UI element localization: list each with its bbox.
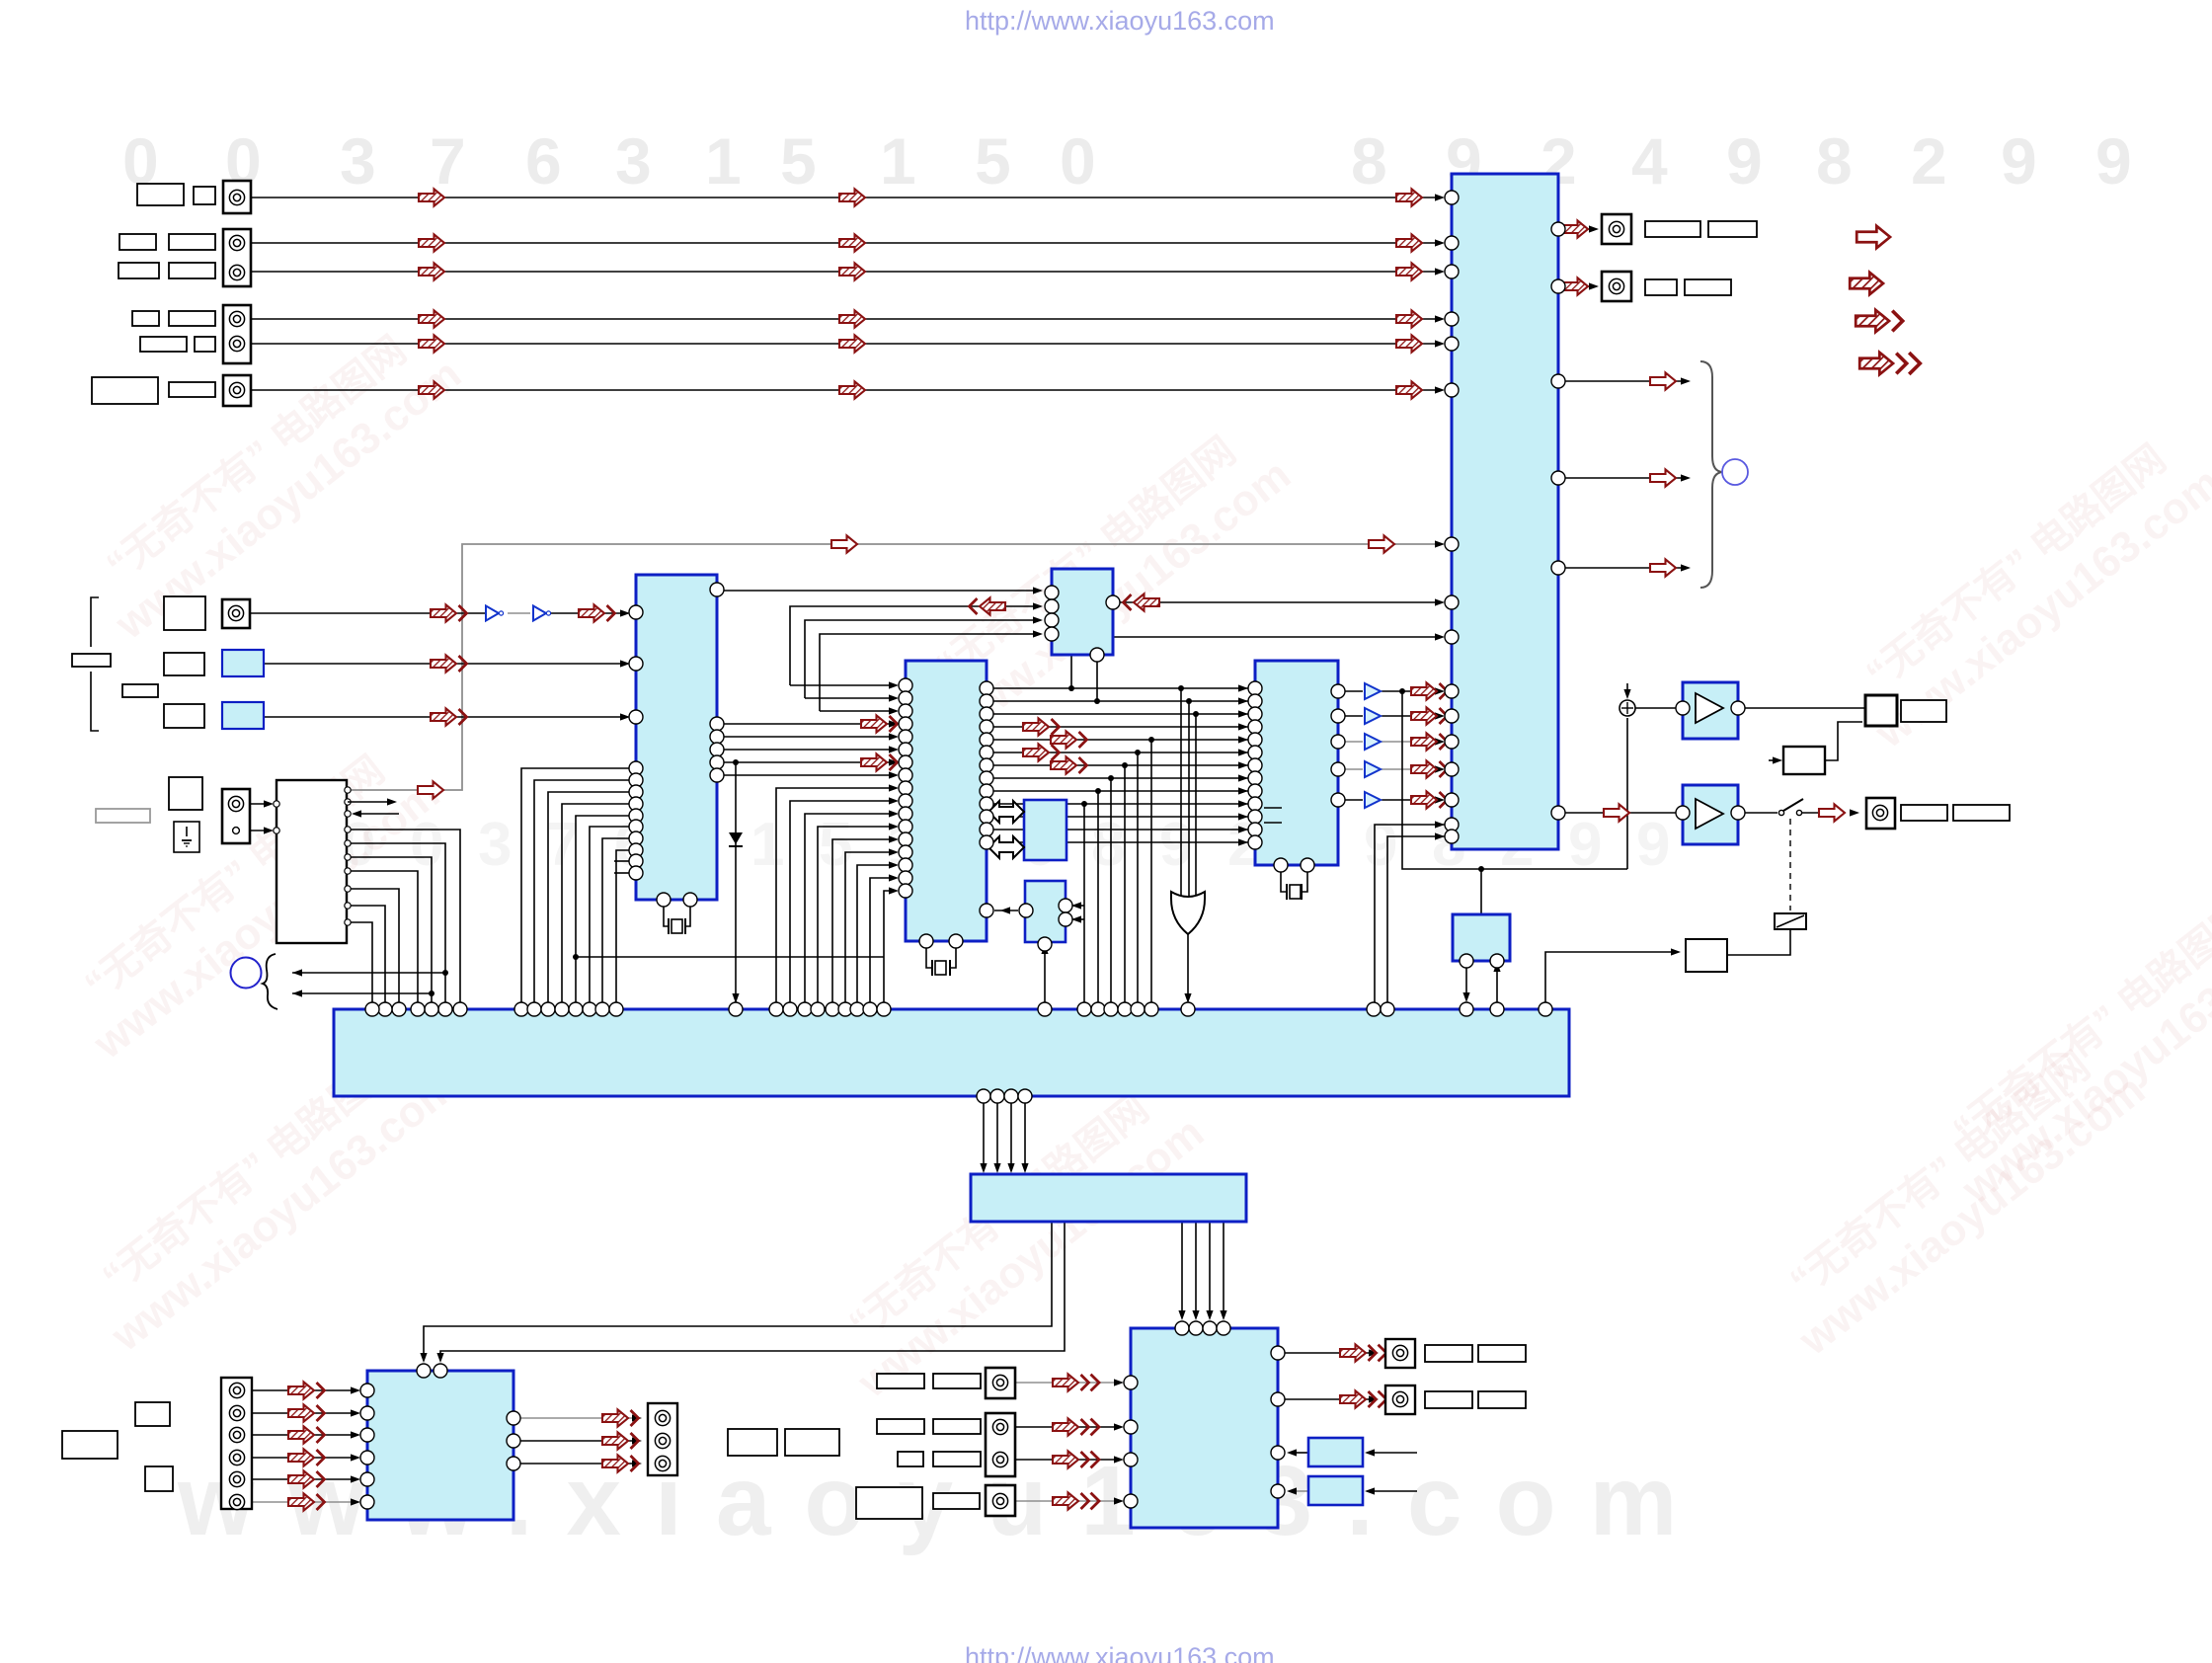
svg-text:0: 0	[1060, 124, 1096, 198]
wire IC5 to AMP2 headphone path	[1558, 812, 1676, 814]
jack out2 bottom	[1385, 1386, 1415, 1414]
wire control bus verticals group2 from IC1	[521, 768, 629, 1002]
pins IC1 bottom	[657, 893, 671, 907]
svg-text:8: 8	[1351, 124, 1387, 198]
svg-text:6: 6	[525, 124, 562, 198]
wire IC7 to K1	[1293, 1452, 1308, 1454]
speaker connector box	[1865, 695, 1897, 726]
wire verticals joining IC1-IC2 rows from IC3 bundle	[790, 684, 892, 686]
wire AMP1 to speaker box	[1745, 707, 1865, 709]
IC6 system control bus	[334, 1009, 1569, 1096]
jack JR2 out	[1602, 272, 1631, 301]
svg-text:9: 9	[1726, 124, 1763, 198]
arrows on IC2-IC4 bundle	[1023, 718, 1060, 735]
label boxes mid-left	[164, 596, 205, 630]
wire IC1 low stub pins	[614, 860, 629, 862]
pins IC3	[1045, 586, 1059, 599]
jack JBR-A	[986, 1368, 1015, 1398]
pins IC1 right and top	[710, 583, 724, 596]
relay RL1	[1775, 913, 1806, 929]
IC3 buffer IC	[1052, 569, 1113, 655]
wire power tap from control bundle	[576, 956, 884, 958]
pins IC2 right	[980, 681, 993, 695]
IC7 display driver block	[971, 1174, 1246, 1222]
wire IC5 outputs right side jacks	[1558, 228, 1592, 230]
jack J1 line in	[223, 181, 251, 213]
IC5 input selector	[1452, 174, 1558, 849]
IC11 bottom right controller	[1131, 1328, 1278, 1528]
wire box2 to speaker	[1825, 722, 1862, 760]
buffer B1	[486, 606, 504, 621]
block F eeprom	[1025, 881, 1066, 942]
svg-text:9: 9	[1364, 811, 1397, 879]
jack JBR-D	[986, 1485, 1015, 1516]
svg-text:3: 3	[478, 811, 512, 879]
wire sum junction feed	[1626, 683, 1628, 693]
diode D1	[729, 832, 743, 844]
wire dashed switch to relay	[1789, 819, 1791, 911]
pins IC10 bottom	[1460, 954, 1473, 968]
pins IC2 bottom	[919, 934, 933, 948]
wire J6 to IC8	[250, 803, 269, 805]
svg-text:7: 7	[430, 124, 466, 198]
crystal X1	[664, 900, 669, 926]
pins AMP2	[1676, 806, 1690, 820]
svg-text:8: 8	[1816, 124, 1853, 198]
wire bundle IC2 to IC4 rows	[993, 687, 1248, 689]
label boxes bottom-right outputs	[1425, 1345, 1472, 1362]
svg-text:3: 3	[340, 124, 376, 198]
IC1 main DSP	[636, 575, 717, 900]
box3 relay driver	[1686, 939, 1727, 972]
jack J5 tape in	[222, 599, 250, 628]
arrow reverse on IC3 feed	[970, 597, 1006, 614]
wire input lines 1-6 to IC5	[251, 197, 1438, 198]
wire relay to driver	[1727, 929, 1790, 955]
svg-text:www.xiaoyu163.com: www.xiaoyu163.com	[106, 350, 470, 649]
amplifier AMP1	[1683, 682, 1738, 739]
selector bracket	[91, 597, 99, 647]
pins IC5 left	[1445, 191, 1459, 204]
wire IC3 bottom pin down	[1096, 655, 1098, 701]
block K1	[1308, 1438, 1363, 1466]
wire IC5 outputs to brace	[1558, 380, 1684, 382]
switch SW1	[1778, 810, 1783, 815]
svg-text:9: 9	[1636, 811, 1670, 879]
pins IC1 left	[629, 605, 643, 619]
remote eye circle	[231, 958, 262, 989]
svg-text:9: 9	[2095, 124, 2132, 198]
watermark digits row 2	[342, 811, 1670, 879]
wire bottom-left input rows	[252, 1389, 354, 1391]
wire IC4 buffer rows to IC5	[1345, 690, 1363, 692]
svg-text:1: 1	[750, 811, 784, 879]
pins IC2 left	[899, 678, 912, 692]
jack headphone	[1866, 798, 1895, 829]
svg-text:3: 3	[615, 124, 652, 198]
svg-text:1: 1	[705, 124, 742, 198]
wire bundle IC1 to IC2 rows	[717, 723, 892, 725]
buffers row IC4	[1365, 683, 1381, 699]
legend arrow hatched chevron	[1856, 310, 1902, 332]
label boxes bottom-right inputs	[877, 1374, 924, 1388]
connector bottom-left 6p	[221, 1378, 252, 1509]
stub arrows IC8	[348, 801, 391, 803]
svg-text:4: 4	[1631, 124, 1668, 198]
pins IC9	[417, 1364, 431, 1378]
legend arrow hatched	[1850, 273, 1883, 294]
remote brace	[263, 954, 277, 1009]
wire IC5 low pins to bus	[1375, 825, 1445, 1002]
jack J6 control	[222, 789, 250, 843]
wire IC2 to block F	[994, 910, 1018, 911]
wire audio feed vertical to sum	[1402, 691, 1627, 869]
wire control bus verticals group1 from IC8	[348, 830, 460, 1002]
IC10 power sub block	[1453, 914, 1510, 961]
jack out1 bottom	[1385, 1339, 1415, 1368]
pins IC5 right	[1551, 222, 1565, 236]
svg-text:5: 5	[819, 811, 852, 879]
svg-text:5: 5	[975, 124, 1011, 198]
pins bus bottom	[977, 1089, 990, 1103]
wire IC7 to K2	[1293, 1490, 1308, 1492]
pins IC4 left	[1248, 681, 1262, 695]
wire line from OPT1 to IC1	[264, 663, 623, 665]
arrow markers on input lines	[419, 189, 444, 205]
optical circle indicator	[1722, 459, 1748, 485]
svg-text:8: 8	[1091, 811, 1125, 879]
watermark digits row 1	[122, 124, 2132, 198]
wire sum branch down	[1626, 718, 1628, 869]
wire OR gate inputs	[1180, 688, 1182, 896]
legend arrow hatched double chevron	[1859, 353, 1920, 374]
crystal X2	[926, 941, 932, 968]
block OPT2 label	[222, 702, 264, 729]
svg-text:9: 9	[2001, 124, 2037, 198]
label boxes bottom-left	[135, 1402, 170, 1426]
bidirectional arrows IC2 to block D	[988, 801, 1024, 823]
wire block F to bus	[1044, 950, 1046, 1002]
block D ram	[1024, 800, 1066, 860]
jack J2 aux	[223, 229, 251, 286]
OR gate G1	[1171, 892, 1205, 934]
block OPT1 label	[222, 650, 264, 676]
wire IC9 outputs	[520, 1417, 635, 1419]
pins IC8 left small	[274, 801, 279, 807]
wire diode branch to bus	[735, 762, 737, 1002]
crystal X3	[1281, 865, 1287, 892]
wire power line to relay driver	[1545, 952, 1674, 1002]
wire verticals IC2-IC4 bundle to bus	[1083, 804, 1085, 1002]
label boxes bottom-mid	[728, 1429, 777, 1456]
wire to power block IC10 top	[1480, 869, 1482, 914]
svg-text:http://www.xiaoyu163.com: http://www.xiaoyu163.com	[965, 1642, 1275, 1663]
wire tape input line with buffers	[250, 612, 486, 614]
wire gray control line from IC8 to IC5	[348, 544, 1438, 790]
pins IC8 right small	[345, 787, 351, 793]
wire stubs into block F right	[1071, 905, 1084, 907]
label boxes top input rows	[137, 184, 184, 205]
wire line from OPT2 to IC1	[264, 716, 623, 718]
IC2 decoder	[906, 661, 987, 941]
jack J3 cd in	[223, 305, 251, 363]
ground symbol box	[174, 822, 199, 852]
arrow reverse to IC3	[1124, 594, 1160, 610]
pins bus top	[453, 1002, 467, 1016]
wire IC7 outputs	[1278, 1352, 1372, 1354]
IC4 DAC	[1255, 661, 1338, 865]
wire bottom-right input rows	[1015, 1382, 1117, 1384]
IC9 tuner block	[367, 1371, 513, 1520]
IC8 mechanism controller	[276, 780, 347, 943]
amplifier AMP2	[1683, 785, 1738, 844]
connector 3p out	[648, 1403, 677, 1475]
svg-text:http://www.xiaoyu163.com: http://www.xiaoyu163.com	[965, 6, 1275, 36]
wire IC3 to IC5	[1113, 601, 1438, 603]
box2 protection	[1783, 747, 1825, 774]
jack JBR-BC	[986, 1413, 1015, 1476]
legend arrow plain	[1856, 226, 1890, 248]
wire IC10 to bus	[1465, 961, 1467, 995]
block K2	[1308, 1476, 1363, 1505]
wire IC5 pin to bundle	[1071, 637, 1438, 688]
gray label strip	[96, 809, 150, 823]
jack JR1 out	[1602, 214, 1631, 244]
pins IC11	[1175, 1321, 1189, 1335]
svg-text:2: 2	[1911, 124, 1947, 198]
wire IC6 to IC7 block	[1181, 1222, 1183, 1313]
wire OR gate output to bus	[1187, 934, 1189, 995]
brace group outputs	[1700, 361, 1723, 588]
watermark pink diagonal instances	[53, 311, 2212, 1408]
wire remote out line	[292, 972, 445, 974]
label boxes right outputs	[1645, 221, 1700, 237]
wire staircase bus to IC2 lower pins	[776, 788, 892, 1002]
svg-text:1: 1	[880, 124, 916, 198]
buffer B2	[533, 606, 551, 621]
sum junction S1	[1619, 700, 1635, 716]
pins AMP1	[1676, 701, 1690, 715]
pins IC4 right	[1331, 684, 1345, 698]
wire bundle IC1 to IC3 rows	[717, 590, 1036, 592]
wire IC6 to IC9 long runs	[424, 1222, 1052, 1355]
pins block F	[1019, 904, 1033, 917]
wire stub into box2	[1769, 759, 1777, 761]
svg-text:5: 5	[780, 124, 817, 198]
jack J4 md in	[223, 375, 251, 406]
wire sum to AMP1	[1635, 707, 1676, 709]
wire bus to IC6	[983, 1096, 985, 1166]
svg-text:www.xiaoyu163.com: www.xiaoyu163.com	[102, 1062, 466, 1361]
pins IC4 bottom	[1274, 858, 1288, 872]
